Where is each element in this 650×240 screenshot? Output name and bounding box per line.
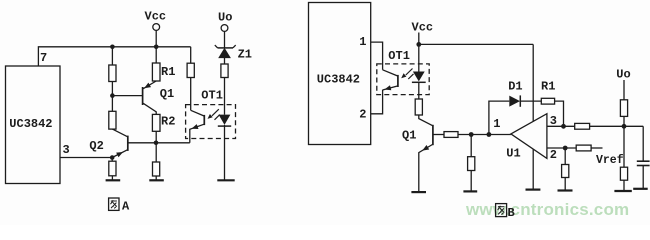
svg-text:7: 7 (40, 51, 47, 65)
svg-text:R1: R1 (541, 79, 555, 93)
svg-text:Vref: Vref (596, 154, 624, 167)
svg-text:A: A (122, 200, 130, 214)
svg-text:Uo: Uo (616, 67, 630, 81)
svg-text:D1: D1 (508, 79, 522, 93)
svg-text:Z1: Z1 (238, 48, 252, 62)
svg-text:Q1: Q1 (160, 87, 174, 101)
svg-text:Q2: Q2 (89, 139, 103, 153)
svg-text:3: 3 (550, 114, 557, 128)
svg-text:Vcc: Vcc (145, 10, 167, 24)
svg-text:R1: R1 (161, 65, 175, 79)
svg-text:UC3842: UC3842 (317, 73, 360, 87)
svg-text:U1: U1 (506, 146, 520, 160)
svg-text:OT1: OT1 (388, 49, 410, 63)
svg-text:Vcc: Vcc (412, 20, 434, 34)
svg-text:R2: R2 (161, 115, 175, 129)
svg-text:www.cntronics.com: www.cntronics.com (465, 200, 629, 219)
svg-text:OT1: OT1 (201, 88, 223, 102)
svg-text:Uo: Uo (218, 11, 232, 25)
svg-text:B: B (508, 206, 515, 220)
svg-text:2: 2 (359, 108, 366, 122)
svg-text:2: 2 (550, 148, 557, 162)
svg-text:Q1: Q1 (402, 128, 416, 142)
svg-text:3: 3 (63, 143, 70, 157)
svg-text:UC3842: UC3842 (9, 117, 52, 131)
svg-text:1: 1 (493, 117, 500, 131)
svg-text:1: 1 (359, 35, 366, 49)
